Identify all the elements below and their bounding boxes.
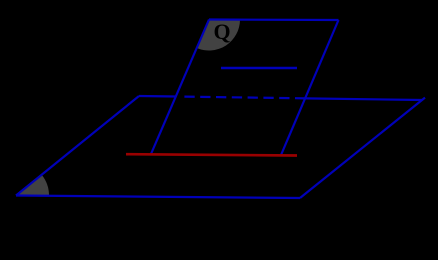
- angle sector at plane Q corner: [197, 20, 240, 51]
- red intersection line on plane P: [126, 154, 297, 155]
- plane Q top edge: [209, 18, 339, 21]
- svg-text:Q: Q: [214, 19, 231, 44]
- plane Q left edge: [151, 20, 209, 155]
- dihedral angle sector at plane P left vertex: [16, 175, 49, 196]
- plane P top edge visible right part (crossing to C): [306, 98, 423, 100]
- plane P top edge hidden dashed part (behind plane Q): [184, 97, 305, 99]
- plane P left edge (A to D): [16, 96, 139, 196]
- plane P top edge visible left part (D to Q-left crossing): [139, 95, 176, 98]
- plane P bottom edge (B to A): [16, 196, 300, 199]
- plane Q right edge: [281, 20, 339, 155]
- line segment inside plane Q: [221, 67, 297, 70]
- plane P right edge (C to B): [300, 98, 425, 198]
